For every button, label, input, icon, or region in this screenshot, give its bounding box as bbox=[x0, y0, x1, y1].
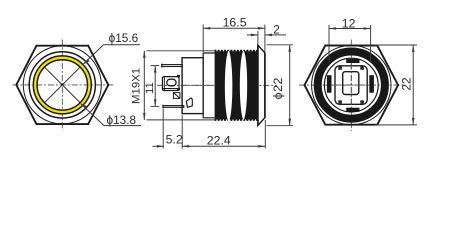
rear centerline overlay horizontal bbox=[332, 84, 369, 86]
dim 11 top tick bbox=[151, 65, 160, 67]
insert corner mark bottom-left bbox=[338, 100, 342, 103]
thread ring black annulus (rear) bbox=[318, 52, 385, 119]
dim 22.4 left arrow bbox=[182, 145, 189, 148]
svg-text:22: 22 bbox=[399, 77, 413, 90]
terminal bar bottom (rear) bbox=[346, 108, 359, 112]
label φ15.6 leader arrowhead bbox=[83, 59, 90, 65]
dim 12 right extension line bbox=[370, 25, 372, 62]
dim φ22 line bbox=[289, 45, 291, 126]
button inner circle (φ13.8) bbox=[37, 60, 87, 110]
faston tip line bbox=[163, 77, 165, 91]
dim 2 left arrow line bbox=[247, 34, 258, 36]
thread root notches bottom bbox=[216, 119, 260, 121]
dim M19X1 bottom arrow bbox=[143, 113, 146, 120]
dim φ22 bottom arrow bbox=[288, 119, 291, 126]
svg-text:ϕ15.6: ϕ15.6 bbox=[109, 31, 139, 45]
svg-text:16.5: 16.5 bbox=[223, 15, 247, 29]
rear centerline overlay vertical bbox=[350, 63, 352, 107]
nut chamfer circle bbox=[23, 46, 101, 124]
insert corner mark top-left bbox=[338, 66, 342, 69]
dim 11 line bbox=[154, 66, 156, 107]
bottom terminal crimp (small quad) bbox=[173, 93, 180, 99]
dim 12 left extension line bbox=[328, 25, 330, 62]
label φ13.8 leader bbox=[81, 104, 141, 126]
thread moire white lens 1 bbox=[225, 50, 233, 121]
thread root notches top bbox=[216, 50, 260, 52]
terminal bar top (rear) bbox=[346, 59, 359, 63]
dim 11 bottom tick bbox=[151, 105, 160, 107]
insert corner mark top-right bbox=[360, 66, 364, 69]
dim 22 bottom extension line bbox=[374, 124, 417, 126]
dim 16.5 right arrow bbox=[258, 27, 265, 30]
faston crimp tab top bbox=[177, 75, 180, 77]
faston terminal body bbox=[162, 77, 179, 91]
dim M19X1 top arrow bbox=[143, 51, 146, 58]
nut chamfer circle (rear) bbox=[312, 45, 391, 124]
diagonal cross line NE-SW bbox=[45, 67, 80, 102]
dim 12 right arrow bbox=[364, 27, 371, 30]
bottom terminal pin bbox=[163, 105, 184, 109]
top terminal pin bbox=[162, 64, 183, 68]
ring outer circle (φ15.6) bbox=[33, 56, 91, 114]
label φ13.8 leader arrowhead bbox=[80, 103, 87, 109]
dim 11 bottom arrow bbox=[154, 99, 157, 106]
hex nut outline (rear view) bbox=[305, 46, 399, 125]
head front face line bbox=[264, 53, 266, 118]
dim 5.2 right extension line bbox=[181, 115, 183, 148]
terminal bar right (rear) bbox=[369, 75, 374, 93]
dim 12 line bbox=[329, 28, 371, 30]
dim M19X1 line bbox=[143, 51, 145, 120]
svg-text:11: 11 bbox=[144, 82, 156, 94]
bottom terminal (angled square) bbox=[186, 98, 192, 107]
bezel outer circle bbox=[29, 52, 95, 118]
dim φ22 top arrow bbox=[288, 45, 291, 52]
dim 22 top extension line bbox=[374, 44, 417, 46]
neck top edge bbox=[203, 53, 214, 58]
axis centerline overlay over housing bbox=[183, 84, 215, 86]
dim 22 bottom arrow bbox=[412, 118, 415, 125]
dim 16.5 / 2 extension line (head front) bbox=[264, 25, 266, 53]
hex nut outline (front view) bbox=[16, 46, 108, 124]
insert rounded square (rear) bbox=[335, 66, 367, 105]
svg-text:2: 2 bbox=[273, 24, 279, 37]
head back face line bbox=[257, 45, 259, 125]
dim 22 line bbox=[412, 45, 414, 125]
side view axis centerline bbox=[157, 84, 277, 86]
insert corner mark bottom-right bbox=[360, 100, 364, 103]
housing body rectangle bbox=[182, 58, 203, 114]
svg-text:ϕ13.8: ϕ13.8 bbox=[107, 113, 137, 127]
button head profile bbox=[258, 45, 265, 125]
thread OD bottom extension line bbox=[147, 119, 215, 121]
dim φ22 bottom extension line bbox=[267, 125, 294, 127]
threaded body black mass bbox=[215, 50, 258, 121]
terminal bar left (rear) bbox=[327, 75, 332, 93]
faston crimp tab bottom bbox=[177, 88, 180, 90]
thread OD top extension line bbox=[147, 50, 215, 52]
svg-text:5.2: 5.2 bbox=[166, 132, 183, 146]
faston inner bottom line bbox=[163, 88, 179, 90]
dim 11 top arrow bbox=[154, 66, 157, 73]
dim 22.4 right extension line bbox=[264, 120, 266, 149]
illuminated ring yellow annulus bbox=[35, 58, 89, 112]
rear view vertical centerline bbox=[350, 40, 352, 132]
rear view horizontal centerline bbox=[299, 84, 404, 86]
dim 16.5 line bbox=[203, 27, 265, 29]
dim 5.2 left extension line bbox=[162, 109, 164, 149]
svg-text:22.4: 22.4 bbox=[207, 133, 231, 147]
front view horizontal centerline bbox=[13, 84, 114, 86]
dim 16.5 left arrow bbox=[203, 27, 210, 30]
neck bottom edge bbox=[203, 114, 214, 118]
dim 2 right arrow line bbox=[265, 34, 286, 36]
dim 5.2 left arrow line bbox=[153, 145, 164, 147]
dim 16.5 left extension line bbox=[202, 25, 204, 53]
dim 12 left arrow bbox=[329, 27, 336, 30]
dim 5.2 left arrow bbox=[157, 145, 164, 148]
dim 22 top arrow bbox=[412, 45, 415, 52]
center LED window square (rear) bbox=[343, 72, 359, 95]
dim φ22 top extension line bbox=[267, 44, 294, 46]
dim 2 right arrow bbox=[265, 34, 272, 37]
svg-text:M19X1: M19X1 bbox=[131, 68, 143, 104]
dim 2 left arrow bbox=[251, 34, 258, 37]
svg-text:ϕ22: ϕ22 bbox=[271, 77, 285, 99]
svg-text:12: 12 bbox=[342, 17, 356, 31]
inner circle (rear) bbox=[324, 58, 378, 112]
thread moire white lens 2 bbox=[240, 50, 247, 120]
diagonal cross line NW-SE bbox=[45, 67, 80, 102]
dim 16.5 / 2 extension line (head back) bbox=[257, 31, 259, 44]
label φ15.6 leader bbox=[84, 45, 141, 64]
dim 22.4 right arrow bbox=[258, 145, 265, 148]
dim 22.4 line bbox=[182, 145, 265, 147]
faston oval hole bbox=[167, 79, 176, 86]
front view vertical centerline bbox=[61, 40, 63, 131]
